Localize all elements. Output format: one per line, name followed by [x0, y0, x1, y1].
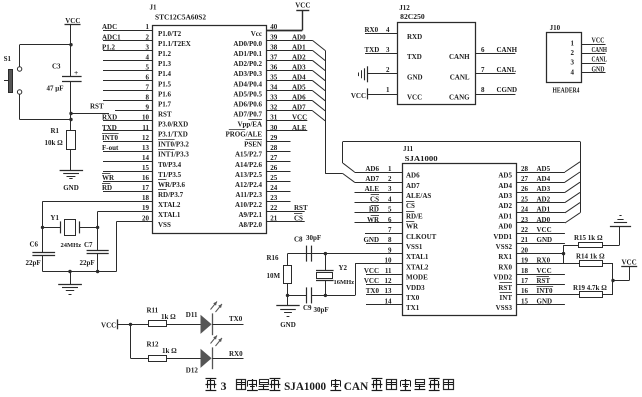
svg-text:A14/P2.6: A14/P2.6: [235, 161, 263, 169]
svg-text:SJA1000: SJA1000: [405, 155, 439, 163]
svg-text:AD7: AD7: [292, 104, 306, 112]
svg-text:AD2: AD2: [498, 202, 512, 210]
svg-text:C9: C9: [303, 304, 312, 312]
svg-text:CANH: CANH: [592, 46, 608, 54]
svg-text:CS: CS: [294, 214, 303, 222]
svg-text:WR: WR: [367, 216, 380, 224]
svg-text:RST: RST: [537, 277, 551, 285]
svg-text:28: 28: [521, 165, 529, 173]
svg-text:P1.7: P1.7: [158, 100, 172, 108]
svg-text:8: 8: [481, 86, 485, 94]
svg-text:RX0: RX0: [537, 257, 551, 265]
svg-text:ALE: ALE: [365, 185, 380, 193]
svg-text:R16: R16: [267, 254, 280, 262]
svg-text:AD6: AD6: [365, 165, 379, 173]
svg-text:CANL: CANL: [592, 56, 608, 64]
svg-text:RD: RD: [369, 206, 379, 214]
svg-text:P1.0/T2: P1.0/T2: [158, 30, 182, 38]
svg-text:VCC: VCC: [622, 258, 637, 266]
svg-text:INT1/P3.3: INT1/P3.3: [158, 151, 189, 159]
svg-text:VCC: VCC: [101, 321, 116, 329]
svg-text:AD6/P0.6: AD6/P0.6: [233, 100, 262, 108]
svg-text:30pF: 30pF: [314, 306, 329, 314]
svg-text:TX0: TX0: [229, 315, 243, 323]
svg-text:4: 4: [571, 68, 575, 76]
svg-text:GND: GND: [537, 236, 553, 244]
svg-text:CANL: CANL: [450, 73, 470, 81]
svg-text:AD2/P0.2: AD2/P0.2: [233, 60, 262, 68]
svg-text:Y2: Y2: [339, 264, 348, 272]
svg-text:VCC: VCC: [592, 37, 605, 45]
svg-text:P1.1/T2EX: P1.1/T2EX: [158, 40, 191, 48]
svg-text:VCC: VCC: [295, 2, 310, 10]
svg-text:29: 29: [270, 134, 278, 142]
svg-text:J12: J12: [399, 4, 410, 12]
svg-text:AD3: AD3: [292, 63, 306, 71]
svg-text:AD4: AD4: [498, 182, 512, 190]
svg-text:WR: WR: [406, 223, 419, 231]
svg-text:24MHz: 24MHz: [61, 242, 82, 249]
svg-text:18: 18: [521, 267, 529, 275]
svg-text:12: 12: [142, 134, 150, 142]
svg-text:A15/P2.7: A15/P2.7: [235, 151, 263, 159]
svg-text:CANH: CANH: [449, 53, 470, 61]
svg-text:T0/P3.4: T0/P3.4: [158, 161, 182, 169]
svg-text:INT0/P3.2: INT0/P3.2: [158, 141, 189, 149]
svg-text:P1.2: P1.2: [102, 43, 116, 51]
svg-text:TXD: TXD: [102, 124, 117, 132]
svg-text:7: 7: [388, 226, 392, 234]
svg-text:VDD1: VDD1: [493, 233, 512, 241]
svg-text:A8/P2.0: A8/P2.0: [238, 221, 262, 229]
svg-text:RXD: RXD: [102, 114, 117, 122]
svg-text:CANH: CANH: [497, 46, 518, 54]
svg-text:XTAL2: XTAL2: [406, 263, 429, 271]
svg-text:+: +: [74, 68, 78, 77]
svg-text:RX0: RX0: [229, 350, 243, 358]
svg-text:RST: RST: [90, 103, 104, 111]
svg-text:J10: J10: [550, 24, 561, 32]
svg-text:6: 6: [481, 46, 485, 54]
svg-text:TXD: TXD: [365, 46, 380, 54]
svg-text:30pF: 30pF: [306, 234, 321, 242]
svg-text:AD1: AD1: [537, 206, 551, 214]
svg-text:J1: J1: [150, 4, 158, 12]
svg-text:22: 22: [521, 226, 529, 234]
svg-text:XTAL1: XTAL1: [158, 211, 181, 219]
svg-text:R11: R11: [147, 306, 159, 314]
svg-text:AD7: AD7: [365, 175, 379, 183]
svg-text:R19 4.7k Ω: R19 4.7k Ω: [573, 284, 607, 292]
svg-text:GND: GND: [407, 73, 423, 81]
svg-text:AD2: AD2: [292, 53, 306, 61]
svg-text:AD4: AD4: [292, 74, 306, 82]
svg-text:J11: J11: [403, 145, 414, 153]
svg-text:Vpp/EA: Vpp/EA: [237, 121, 262, 129]
svg-text:15: 15: [142, 164, 150, 172]
svg-text:1: 1: [571, 40, 575, 48]
svg-text:PSEN: PSEN: [244, 141, 262, 149]
svg-text:VCC: VCC: [364, 277, 379, 285]
svg-text:2: 2: [386, 66, 390, 74]
svg-text:F-out: F-out: [102, 144, 119, 152]
svg-text:RX0: RX0: [498, 263, 512, 271]
svg-text:XTAL1: XTAL1: [406, 253, 429, 261]
svg-text:17: 17: [142, 184, 150, 192]
svg-text:C8: C8: [294, 236, 303, 244]
svg-text:RST: RST: [498, 284, 512, 292]
svg-text:AD0/P0.0: AD0/P0.0: [233, 40, 262, 48]
svg-text:R1: R1: [51, 127, 60, 135]
svg-text:PROG/ALE: PROG/ALE: [225, 131, 262, 139]
svg-text:3: 3: [221, 379, 227, 393]
svg-text:D12: D12: [186, 366, 199, 374]
svg-text:S1: S1: [4, 55, 12, 63]
svg-text:2: 2: [388, 175, 392, 183]
svg-text:AD1: AD1: [498, 212, 512, 220]
svg-text:CAN: CAN: [344, 379, 369, 393]
svg-text:A11/P2.3: A11/P2.3: [235, 191, 262, 199]
svg-text:7: 7: [481, 66, 485, 74]
svg-text:VSS1: VSS1: [406, 243, 423, 251]
svg-text:47 μF: 47 μF: [47, 85, 64, 93]
svg-text:STC12C5A60S2: STC12C5A60S2: [155, 14, 207, 22]
svg-text:ALE/AS: ALE/AS: [406, 192, 431, 200]
svg-text:GND: GND: [363, 236, 379, 244]
svg-text:27: 27: [270, 154, 278, 162]
svg-text:RST: RST: [158, 111, 172, 119]
svg-text:P1.2: P1.2: [158, 50, 172, 58]
svg-text:VCC: VCC: [351, 92, 366, 100]
svg-text:14: 14: [142, 154, 150, 162]
svg-text:P1.4: P1.4: [158, 70, 172, 78]
svg-text:GND: GND: [63, 184, 79, 192]
svg-text:CGND: CGND: [497, 86, 518, 94]
svg-text:16: 16: [142, 174, 150, 182]
svg-text:82C250: 82C250: [400, 13, 425, 21]
svg-text:TX1: TX1: [406, 304, 420, 312]
svg-text:INT0: INT0: [102, 134, 118, 142]
svg-text:AD5: AD5: [498, 172, 512, 180]
svg-text:P1.5: P1.5: [158, 80, 172, 88]
svg-text:INT: INT: [500, 294, 513, 302]
svg-text:CANL: CANL: [497, 66, 517, 74]
svg-text:AD0: AD0: [537, 216, 551, 224]
svg-text:AD5: AD5: [537, 165, 551, 173]
svg-text:RX1: RX1: [498, 253, 512, 261]
svg-text:AD2: AD2: [537, 195, 551, 203]
svg-text:VDD3: VDD3: [406, 284, 425, 292]
svg-text:24: 24: [270, 184, 278, 192]
svg-text:ADC1: ADC1: [102, 33, 121, 41]
svg-text:HEADER4: HEADER4: [553, 87, 580, 95]
svg-text:AD5/P0.5: AD5/P0.5: [233, 90, 262, 98]
svg-text:RX0: RX0: [365, 26, 379, 34]
svg-text:P1.6: P1.6: [158, 90, 172, 98]
svg-text:AD3/P0.3: AD3/P0.3: [233, 70, 262, 78]
svg-text:A10/P2.2: A10/P2.2: [235, 201, 263, 209]
svg-text:10k Ω: 10k Ω: [45, 139, 64, 147]
svg-text:TX0: TX0: [406, 294, 420, 302]
svg-text:C6: C6: [30, 240, 39, 248]
svg-text:C7: C7: [84, 241, 93, 249]
svg-text:ADC: ADC: [102, 23, 117, 31]
svg-text:TXD: TXD: [407, 53, 422, 61]
svg-text:GND: GND: [592, 65, 605, 73]
svg-text:16MHz: 16MHz: [334, 279, 355, 286]
svg-text:SJA1000: SJA1000: [284, 379, 326, 393]
svg-text:3: 3: [386, 46, 390, 54]
svg-text:Vcc: Vcc: [251, 30, 262, 38]
svg-text:VCC: VCC: [407, 93, 422, 101]
svg-text:VSS: VSS: [158, 221, 171, 229]
svg-text:26: 26: [270, 164, 278, 172]
svg-text:28: 28: [270, 144, 278, 152]
svg-text:AD0: AD0: [498, 223, 512, 231]
svg-text:R12: R12: [147, 341, 160, 349]
svg-text:1k Ω: 1k Ω: [161, 313, 176, 321]
svg-text:AD1/P0.1: AD1/P0.1: [233, 50, 262, 58]
svg-text:1: 1: [386, 86, 390, 94]
svg-text:AD4/P0.4: AD4/P0.4: [233, 80, 262, 88]
svg-text:CLKOUT: CLKOUT: [406, 233, 437, 241]
svg-text:VSS2: VSS2: [496, 243, 513, 251]
svg-text:INT0: INT0: [537, 287, 553, 295]
svg-text:TX0: TX0: [366, 287, 380, 295]
svg-text:25: 25: [270, 174, 278, 182]
svg-text:RD/E: RD/E: [406, 212, 423, 220]
svg-text:AD0: AD0: [292, 33, 306, 41]
svg-text:10M: 10M: [267, 272, 281, 280]
svg-text:17: 17: [521, 277, 529, 285]
svg-text:AD6: AD6: [406, 172, 420, 180]
svg-text:GND: GND: [537, 297, 553, 305]
svg-text:D11: D11: [186, 311, 198, 319]
svg-text:RST: RST: [294, 204, 308, 212]
svg-text:C3: C3: [52, 63, 61, 71]
svg-text:WR: WR: [102, 174, 115, 182]
svg-text:AD3: AD3: [537, 185, 551, 193]
svg-text:A12/P2.4: A12/P2.4: [235, 181, 263, 189]
svg-text:11: 11: [385, 267, 392, 275]
svg-text:ALE: ALE: [292, 124, 307, 132]
svg-text:AD7/P0.7: AD7/P0.7: [233, 111, 262, 119]
svg-text:AD5: AD5: [292, 84, 306, 92]
svg-text:T1/P3.5: T1/P3.5: [158, 171, 182, 179]
svg-text:RXD: RXD: [407, 33, 422, 41]
svg-text:RD: RD: [102, 184, 112, 192]
svg-text:MODE: MODE: [406, 274, 428, 282]
svg-text:27: 27: [521, 175, 529, 183]
svg-text:2: 2: [571, 49, 575, 57]
svg-text:CS: CS: [406, 202, 415, 210]
svg-text:CS: CS: [370, 195, 379, 203]
svg-text:VDD2: VDD2: [493, 274, 512, 282]
svg-text:WR/P3.6: WR/P3.6: [158, 181, 186, 189]
svg-text:3: 3: [571, 59, 575, 67]
svg-text:VSS3: VSS3: [496, 304, 513, 312]
svg-text:AD3: AD3: [498, 192, 512, 200]
svg-text:VCC: VCC: [537, 267, 552, 275]
svg-text:Y1: Y1: [50, 214, 59, 222]
svg-text:R14 1k Ω: R14 1k Ω: [576, 253, 605, 261]
svg-text:1k Ω: 1k Ω: [162, 347, 177, 355]
svg-text:GND: GND: [280, 321, 296, 329]
svg-text:VCC: VCC: [537, 226, 552, 234]
svg-text:P3.0/RXD: P3.0/RXD: [158, 121, 188, 129]
svg-text:RD/P3.7: RD/P3.7: [158, 191, 184, 199]
svg-text:AD6: AD6: [292, 94, 306, 102]
svg-text:A9/P2.1: A9/P2.1: [238, 211, 262, 219]
svg-text:1: 1: [388, 165, 392, 173]
svg-text:AD7: AD7: [406, 182, 420, 190]
svg-text:P3.1/TXD: P3.1/TXD: [158, 131, 188, 139]
svg-text:22pF: 22pF: [26, 259, 41, 267]
svg-text:4: 4: [386, 26, 390, 34]
svg-text:22pF: 22pF: [80, 259, 95, 267]
svg-text:P1.3: P1.3: [158, 60, 172, 68]
svg-text:XTAL2: XTAL2: [158, 201, 181, 209]
svg-text:A13/P2.5: A13/P2.5: [235, 171, 263, 179]
svg-text:AD1: AD1: [292, 43, 306, 51]
svg-text:R15 1k Ω: R15 1k Ω: [574, 234, 603, 242]
svg-text:CANG: CANG: [449, 93, 470, 101]
svg-text:13: 13: [142, 144, 150, 152]
svg-text:VCC: VCC: [364, 267, 379, 275]
svg-text:AD4: AD4: [537, 175, 551, 183]
svg-text:12: 12: [385, 277, 393, 285]
svg-text:VCC: VCC: [292, 114, 307, 122]
